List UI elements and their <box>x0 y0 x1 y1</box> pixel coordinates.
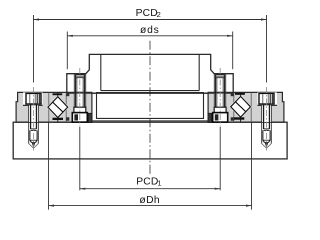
inner ring top line right <box>204 92 234 94</box>
left outer bolt shank hole <box>29 105 39 122</box>
svg-text:øDh: øDh <box>139 195 160 206</box>
table bore bottom silhouette <box>101 90 199 92</box>
right outer bolt tip <box>265 143 268 147</box>
left inner bolt thread <box>75 75 77 108</box>
roller slot edge lines right <box>250 93 252 122</box>
left outer bolt shank <box>30 104 32 129</box>
left outer bolt thread section <box>30 130 37 142</box>
right inner bolt washer <box>214 107 226 112</box>
table bore right edge <box>198 55 200 91</box>
right outer bolt thread section <box>263 130 270 142</box>
left roller seal gap marks <box>53 93 63 95</box>
main centerline <box>149 41 151 174</box>
upper table (rotating flange) <box>67 54 233 93</box>
left inner bolt centerline <box>79 68 81 126</box>
svg-text:2: 2 <box>157 10 161 19</box>
svg-text:PCD: PCD <box>136 177 158 188</box>
right seal lip corners <box>231 93 234 96</box>
PCD2 dimension <box>33 15 35 83</box>
inner ring top line left <box>66 92 96 94</box>
right inner bolt thread <box>215 75 217 108</box>
left outer bolt head <box>26 93 41 104</box>
table bore left edge <box>100 55 102 91</box>
left inner bolt bore <box>74 94 85 108</box>
left roller (crossed roller diamond) <box>48 97 68 118</box>
right outer bolt head <box>259 93 274 104</box>
clearance silhouette line <box>92 120 209 122</box>
svg-text:øds: øds <box>140 25 160 36</box>
left inner bolt head <box>72 113 87 123</box>
outer+inner ring gray band left <box>16 92 92 122</box>
right inner bolt centerline <box>219 68 221 126</box>
inner ring bore lip dark block right <box>208 113 212 122</box>
left roller clearance <box>47 95 69 119</box>
left outer bolt counterbore <box>23 92 43 105</box>
right inner bolt bore <box>214 94 225 108</box>
left inner bolt washer <box>74 107 86 112</box>
roller slot edge lines left <box>48 93 50 122</box>
left outer bolt head section hatch <box>37 94 41 103</box>
right outer bolt shank hole <box>261 105 271 122</box>
inner ring bore rectangle <box>97 93 204 119</box>
right outer bolt shank <box>263 104 265 129</box>
base plate <box>13 122 287 159</box>
right roller seal gap marks <box>235 93 245 95</box>
ods dimension <box>66 32 68 70</box>
right outer bolt counterbore <box>257 92 277 105</box>
PCD1 dimension <box>79 127 81 191</box>
left outer bolt tip <box>32 143 35 147</box>
svg-text:1: 1 <box>157 178 161 187</box>
inner ring bore lip dark block left <box>88 113 92 122</box>
left outer bolt centerline <box>33 87 35 152</box>
right outer bolt head section hatch <box>270 94 274 103</box>
right roller clearance <box>229 95 251 119</box>
oDh dimension <box>48 122 50 209</box>
right roller (crossed roller diamond) <box>231 96 251 117</box>
right outer bolt centerline <box>266 87 268 152</box>
outer+inner ring gray band right <box>208 92 284 122</box>
right inner bolt head <box>213 113 228 123</box>
svg-text:PCD: PCD <box>136 8 158 19</box>
left seal lip corners <box>66 93 69 96</box>
